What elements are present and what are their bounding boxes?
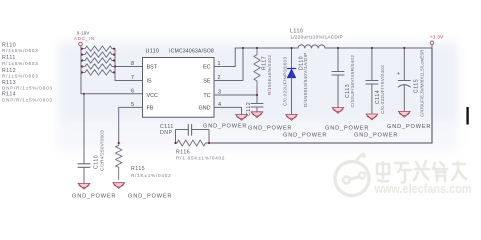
- capacitor C114: [366, 48, 378, 114]
- svg-text:GND_POWER: GND_POWER: [325, 125, 369, 131]
- label R113: [2, 80, 53, 90]
- svg-text:D/1N5819/940V/1A/DIP: D/1N5819/940V/1A/DIP: [303, 52, 308, 107]
- svg-text:TC: TC: [203, 93, 210, 99]
- label R111: [2, 55, 39, 66]
- wire IS rail (right of resistor bank): [114, 49, 116, 81]
- resistor R114: [81, 70, 115, 75]
- label R115: [131, 166, 171, 178]
- resistor R111: [81, 52, 115, 57]
- svg-text:C/2R4/250V/0603: C/2R4/250V/0603: [100, 130, 105, 171]
- capacitor C113: [332, 48, 344, 107]
- label R114: [2, 92, 53, 103]
- label C111: [160, 124, 174, 136]
- svg-text:DNP: DNP: [160, 130, 173, 136]
- wire pin3 TC: [214, 94, 257, 96]
- svg-text:EC: EC: [203, 65, 211, 71]
- svg-text:SE: SE: [203, 79, 211, 85]
- svg-text:R/1±5%/0603: R/1±5%/0603: [2, 61, 39, 66]
- svg-text:ICMC34063A/SO8: ICMC34063A/SO8: [169, 49, 214, 55]
- capacitor C111 (DNP): [176, 124, 210, 143]
- svg-text:BST: BST: [147, 65, 158, 71]
- ground C114: [366, 114, 378, 120]
- ground C113: [332, 108, 344, 114]
- junction dots resistor bank: [81, 48, 116, 74]
- resistor R112: [81, 58, 115, 63]
- svg-text:GND_POWER: GND_POWER: [72, 193, 116, 199]
- resistor R117 (vertical): [254, 48, 260, 86]
- wire pin7: [115, 80, 143, 82]
- svg-text:6: 6: [131, 88, 134, 94]
- svg-text:C112: C112: [246, 102, 252, 116]
- svg-text:+: +: [397, 72, 401, 78]
- power port +3.3V: [430, 35, 444, 48]
- label R112: [2, 68, 39, 78]
- op-amp U110 MC34063 box: [143, 58, 215, 118]
- svg-text:+3.3V: +3.3V: [430, 35, 444, 40]
- svg-text:R/1K±1%/0402: R/1K±1%/0402: [131, 173, 171, 178]
- svg-text:9-19V: 9-19V: [77, 30, 90, 35]
- svg-text:R/150K±5%/0402: R/150K±5%/0402: [267, 55, 272, 95]
- capacitor C110: [78, 93, 90, 183]
- label R116: [176, 150, 225, 161]
- ground C112: [251, 112, 263, 118]
- svg-text:GND_POWER: GND_POWER: [203, 123, 247, 129]
- ground C115: [398, 111, 410, 117]
- svg-text:DNP/R/1±5%/0603: DNP/R/1±5%/0603: [2, 85, 53, 90]
- wire VCC feed: [81, 93, 143, 95]
- capacitor C112: [251, 86, 263, 112]
- svg-text:GND_POWER: GND_POWER: [387, 124, 431, 130]
- svg-text:VCC: VCC: [147, 93, 158, 99]
- resistor R116: [176, 140, 209, 146]
- resistor R113: [81, 64, 115, 69]
- svg-text:IS: IS: [147, 79, 152, 85]
- svg-text:R/1±5%/0603: R/1±5%/0603: [2, 48, 39, 53]
- svg-text:www.elecfans.com: www.elecfans.com: [374, 182, 472, 196]
- svg-text:GND_POWER: GND_POWER: [128, 193, 172, 199]
- junction dots switch and output rails: [242, 47, 406, 96]
- wire pin4 GND: [214, 107, 242, 114]
- ground R115: [113, 183, 125, 189]
- svg-text:8: 8: [131, 61, 134, 67]
- wire feedback return: [209, 48, 432, 143]
- svg-text:C/0.022UF/Y5V/0402: C/0.022UF/Y5V/0402: [380, 65, 385, 114]
- svg-text:FB: FB: [147, 105, 154, 111]
- diode D110: [287, 48, 295, 114]
- wire pin2 to switch rail: [214, 48, 243, 81]
- ground C110: [78, 183, 90, 189]
- svg-text:3: 3: [218, 89, 221, 95]
- svg-text:GND_POWER: GND_POWER: [248, 125, 292, 131]
- svg-text:L110: L110: [290, 28, 303, 34]
- resistor R115 (vertical): [116, 143, 122, 179]
- svg-text:GND_POWER: GND_POWER: [354, 132, 398, 138]
- svg-text:GND: GND: [199, 105, 211, 111]
- svg-text:GND_POWER: GND_POWER: [283, 132, 327, 138]
- svg-text:C/0.022UF/NP0/0603: C/0.022UF/NP0/0603: [283, 57, 288, 106]
- svg-text:U110: U110: [146, 49, 160, 55]
- svg-text:L/220uH±10%/1ACDIP: L/220uH±10%/1ACDIP: [291, 35, 343, 40]
- wire output rail: [325, 47, 432, 49]
- svg-text:R/1.65K±1%/0402: R/1.65K±1%/0402: [176, 155, 225, 160]
- wire pin1 to switch rail: [214, 48, 235, 67]
- svg-text:R115: R115: [131, 166, 145, 172]
- watermark text 电子发烧友: [377, 161, 466, 183]
- ground D110: [286, 115, 298, 121]
- svg-text:R/1±5%/0603: R/1±5%/0603: [2, 74, 39, 79]
- black cursor bar: [466, 107, 468, 125]
- capacitor C115 (polarized): [397, 48, 411, 111]
- svg-text:7: 7: [131, 75, 134, 81]
- ground pin4: [236, 115, 248, 121]
- svg-text:C/470UF/6.3V/M/8X11.5/LowESR: C/470UF/6.3V/M/8X11.5/LowESR: [419, 49, 424, 117]
- wire pin8: [115, 66, 143, 68]
- resistor R110: [81, 46, 115, 51]
- label R110: [2, 42, 39, 53]
- wire VIN rail: [80, 46, 82, 94]
- wire FB pin5: [119, 107, 143, 143]
- watermark logo elecfans: [335, 154, 369, 195]
- power port ADC_IN 9-19V: [74, 30, 95, 46]
- wire switch node rail: [235, 47, 298, 49]
- inductor L110: [298, 45, 325, 48]
- svg-text:ADC_IN: ADC_IN: [74, 36, 95, 42]
- junction dots FB net: [118, 142, 210, 144]
- svg-text:C/10UF/16V/X5R/0402: C/10UF/16V/X5R/0402: [350, 55, 355, 108]
- svg-text:DNP/R/1±5%/0603: DNP/R/1±5%/0603: [2, 97, 53, 102]
